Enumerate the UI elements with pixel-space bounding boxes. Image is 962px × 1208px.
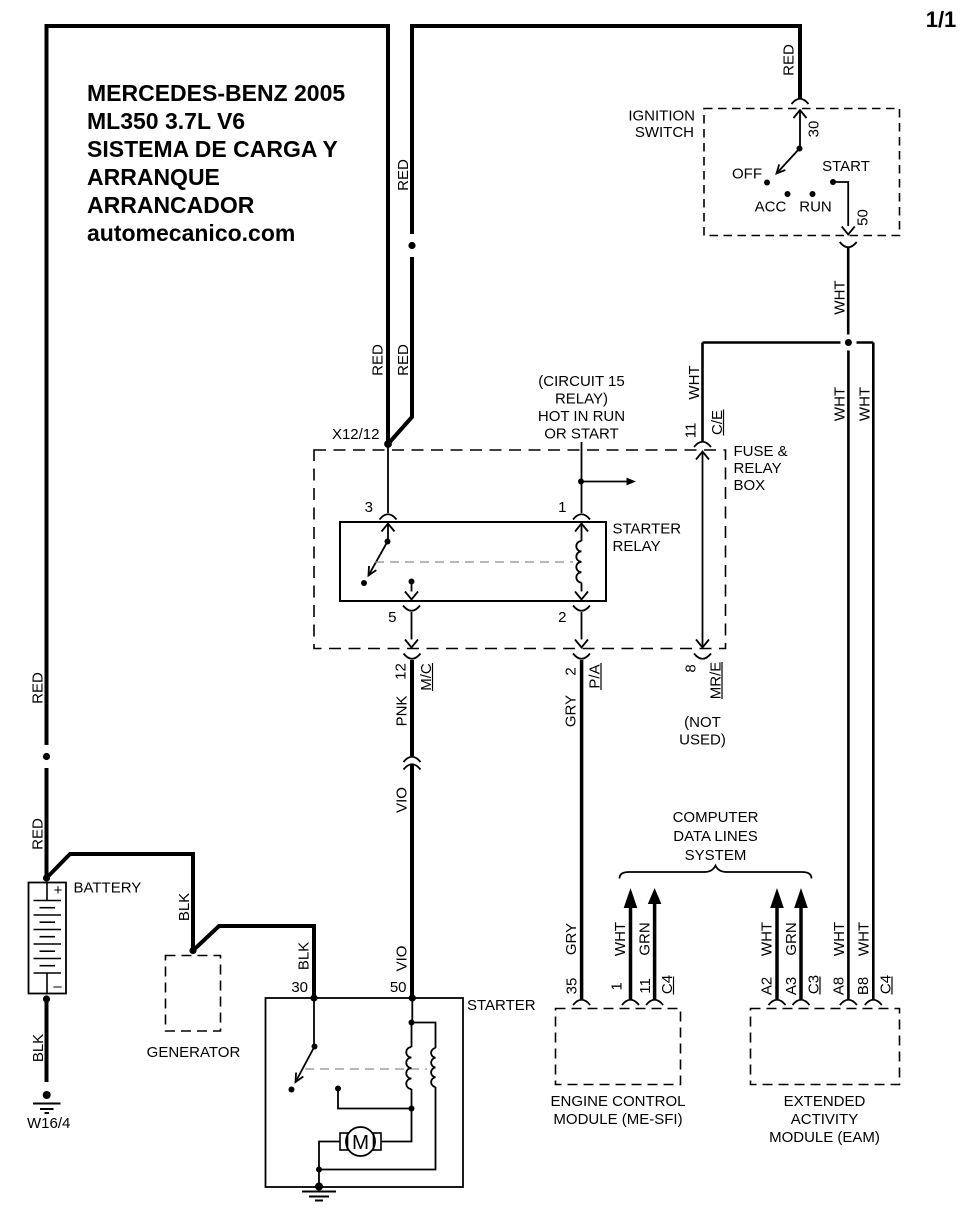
battery B1 outline: [29, 883, 67, 994]
svg-text:WHT: WHT: [831, 280, 848, 314]
starter linkage dashed line: [305, 1068, 427, 1070]
svg-text:W16/4: W16/4: [27, 1115, 70, 1132]
svg-text:30: 30: [805, 121, 822, 138]
starter ground symbol: [302, 1192, 336, 1201]
svg-text:WHT: WHT: [686, 365, 703, 399]
starter lever end contact dot: [289, 1087, 295, 1093]
svg-text:(NOT: (NOT: [684, 714, 721, 731]
svg-text:GENERATOR: GENERATOR: [147, 1044, 241, 1061]
battery bottom stub: [46, 973, 48, 994]
svg-text:MODULE (ME-SFI): MODULE (ME-SFI): [553, 1111, 682, 1128]
wire WHT ignition 50 down to junction: [847, 248, 850, 335]
wire X12/12 to relay terminal 3: [387, 444, 389, 513]
svg-text:BLK: BLK: [30, 1034, 47, 1062]
svg-text:RED: RED: [369, 344, 386, 376]
svg-text:RED: RED: [395, 159, 412, 191]
EAM dashed box: [751, 1009, 900, 1085]
feed tap branch arrowhead: [627, 478, 637, 486]
ECM terminal 1 socket arc: [622, 1000, 639, 1005]
motor left brush: [340, 1133, 348, 1150]
svg-text:FUSE &: FUSE &: [734, 443, 788, 460]
svg-text:2: 2: [558, 609, 566, 626]
wire WHT junction to C/E drop (horizontal): [703, 341, 841, 344]
terminal 2 socket arc below fuse box: [573, 654, 590, 659]
wire contact to motor node: [338, 1089, 412, 1109]
wire GRY fuse terminal 2 to ECM 35: [580, 660, 584, 999]
svg-text:COMPUTER: COMPUTER: [673, 809, 759, 826]
stem terminal 1 to coil: [581, 524, 583, 542]
wire PNK from fuse terminal 12: [410, 660, 414, 756]
starter switch lever: [296, 1047, 315, 1083]
svg-text:EXTENDED: EXTENDED: [784, 1093, 866, 1110]
svg-text:STARTER: STARTER: [613, 521, 682, 538]
svg-text:OFF: OFF: [732, 166, 762, 183]
svg-text:M: M: [352, 1131, 369, 1154]
svg-text:ARRANCADOR: ARRANCADOR: [87, 192, 255, 218]
terminal 8 socket arc: [694, 654, 711, 659]
EAM terminal A3 socket arc: [793, 1000, 810, 1005]
starter terminal 50 dot: [409, 994, 416, 1001]
battery top stub: [46, 883, 48, 901]
svg-text:50: 50: [390, 979, 407, 996]
generator terminal dot: [189, 947, 196, 954]
svg-text:USED): USED): [679, 732, 726, 749]
svg-text:MODULE (EAM): MODULE (EAM): [769, 1129, 880, 1146]
lever arrowhead: [777, 164, 786, 173]
wire stem terminal 30 to pivot: [799, 110, 801, 149]
svg-text:DATA LINES: DATA LINES: [673, 828, 757, 845]
data arrow GRN to ECM pin 11: [648, 888, 662, 904]
wire motor left brush to ground: [319, 1142, 340, 1187]
wire WHT drop to fuse box terminal 11 C/E: [701, 343, 704, 442]
motor node junction dot: [409, 1106, 415, 1112]
svg-text:START: START: [822, 158, 870, 175]
svg-text:SISTEMA DE CARGA Y: SISTEMA DE CARGA Y: [87, 136, 338, 162]
svg-text:RUN: RUN: [799, 199, 832, 216]
node X12/12 junction dot: [384, 440, 392, 448]
stem terminal 3 to relay contact: [387, 524, 389, 542]
title block: [87, 80, 345, 246]
wire START to terminal 50: [833, 182, 848, 226]
START contact dot: [830, 179, 836, 185]
svg-text:WHT: WHT: [855, 922, 872, 956]
svg-text:8: 8: [682, 664, 699, 672]
wire VIO to starter 50: [410, 764, 414, 999]
terminal 3 pin arrow: [382, 524, 395, 532]
svg-text:11: 11: [682, 423, 699, 439]
terminal 3 socket arc: [380, 514, 397, 519]
motor right brush: [374, 1133, 382, 1150]
svg-text:12: 12: [392, 663, 409, 680]
ignition switch connector socket arc (terminal 30 entry): [792, 99, 809, 104]
starter solid box: [266, 998, 464, 1187]
svg-text:VIO: VIO: [393, 787, 410, 813]
svg-text:HOT IN RUN: HOT IN RUN: [538, 408, 625, 425]
svg-text:+: +: [54, 882, 63, 899]
svg-text:RED: RED: [395, 344, 412, 376]
svg-text:GRY: GRY: [562, 695, 579, 727]
svg-text:5: 5: [388, 609, 396, 626]
solenoid tap dot: [409, 1020, 415, 1026]
EAM terminal A2 socket arc: [769, 1000, 786, 1005]
ECM terminal 35 socket arc: [573, 1000, 590, 1005]
svg-text:ML350 3.7L V6: ML350 3.7L V6: [87, 108, 245, 134]
wire BLK battery negative to ground: [45, 999, 49, 1082]
relay armature contact dot terminal 5: [409, 579, 415, 585]
starter lever arrowhead: [296, 1073, 304, 1083]
terminal 1 socket arc: [573, 514, 590, 519]
svg-text:WHT: WHT: [758, 922, 775, 956]
svg-text:IGNITION: IGNITION: [628, 108, 695, 125]
EAM terminal B8 socket arc: [865, 1000, 882, 1005]
starter ground dot: [315, 1183, 323, 1191]
splice dot on left RED wire: [43, 753, 50, 760]
svg-text:WHT: WHT: [831, 922, 848, 956]
wire X12/12-to-ignition RED (upper run): [412, 26, 800, 234]
svg-text:VIO: VIO: [393, 946, 410, 972]
terminal 50 pin arrow: [842, 227, 855, 235]
EAM terminal A8 socket arc: [840, 1000, 857, 1005]
OFF contact dot: [764, 180, 770, 186]
generator dashed box: [166, 956, 221, 1032]
svg-text:PNK: PNK: [393, 696, 410, 727]
ignition switch dashed box: [704, 109, 900, 236]
svg-text:ACTIVITY: ACTIVITY: [791, 1111, 859, 1128]
svg-text:A8: A8: [830, 977, 847, 995]
svg-text:RED: RED: [29, 672, 46, 704]
terminal 2 socket arc: [573, 606, 590, 611]
relay switch lever: [369, 542, 388, 576]
wire pull-in coil to motor node: [411, 1089, 413, 1109]
svg-text:1: 1: [608, 982, 625, 990]
wire WHT junction down to EAM A8: [847, 351, 850, 1000]
data arrow GRN to EAM A3: [794, 888, 808, 908]
ignition switch lever: [777, 149, 800, 174]
svg-text:GRN: GRN: [636, 922, 653, 955]
junction dot WHT splice: [845, 339, 852, 346]
wire circuit15 feed down to relay coil: [581, 442, 583, 513]
C/E entry socket arc at fuse top: [694, 442, 711, 447]
pin arrow at fuse border (12): [405, 640, 418, 648]
svg-text:RELAY: RELAY: [613, 538, 661, 555]
terminal 1 pin arrow: [575, 524, 588, 532]
terminal 50 socket arc: [840, 242, 857, 247]
svg-text:ENGINE CONTROL: ENGINE CONTROL: [550, 1093, 685, 1110]
battery cell plates: [34, 901, 62, 974]
ECM terminal 11 socket arc: [646, 1000, 663, 1005]
svg-text:SYSTEM: SYSTEM: [685, 847, 747, 864]
data arrow WHT to EAM A2: [770, 888, 784, 908]
svg-text:BLK: BLK: [295, 942, 312, 970]
data lines brace: [620, 866, 812, 879]
pull-in coil: [406, 1047, 411, 1089]
svg-text:BOX: BOX: [734, 477, 766, 494]
starter terminal 30 dot: [310, 994, 317, 1001]
svg-text:A2: A2: [758, 977, 775, 995]
svg-text:STARTER: STARTER: [467, 997, 536, 1014]
ground W16/4: [33, 1091, 61, 1113]
pass-through wire 11 to 8: [702, 452, 704, 648]
terminal 12 socket arc below fuse box: [404, 654, 421, 659]
stem coil to terminal 2: [581, 583, 583, 592]
svg-text:RELAY: RELAY: [734, 460, 782, 477]
svg-text:ARRANQUE: ARRANQUE: [87, 164, 220, 190]
inline connector upper arc: [404, 757, 421, 762]
wire terminal 5 to fuse box border: [411, 612, 413, 640]
svg-text:GRN: GRN: [783, 922, 800, 955]
svg-text:MERCEDES-BENZ 2005: MERCEDES-BENZ 2005: [87, 80, 345, 106]
ground bus junction dot: [316, 1167, 322, 1173]
pin arrow at fuse border (2): [575, 640, 588, 648]
ignition pin arrow terminal 30: [794, 110, 807, 118]
stem contact to terminal 5: [411, 582, 413, 592]
starter relay solid box: [340, 522, 606, 601]
splice dot on ignition RED wire: [408, 242, 415, 249]
inline connector lower arc: [404, 764, 421, 769]
hold-in coil: [431, 1048, 435, 1087]
pin arrow terminal 8 at bottom border: [696, 640, 709, 648]
wire battery-to-X12/12 RED (upper run): [47, 26, 389, 745]
svg-text:11: 11: [637, 978, 654, 994]
pin arrow C/E inside fuse box: [696, 452, 709, 460]
data arrow WHT to ECM pin 1: [624, 888, 638, 908]
svg-text:ACC: ACC: [755, 199, 787, 216]
svg-text:35: 35: [563, 978, 580, 995]
starter switch pivot dot: [312, 1044, 318, 1050]
stem 50 to solenoid tap: [411, 998, 413, 1023]
stem 30 to switch pivot: [313, 998, 315, 1047]
terminal 2 pin arrow: [575, 592, 588, 600]
svg-text:GRY: GRY: [563, 923, 580, 955]
svg-text:B8: B8: [855, 977, 872, 995]
svg-text:X12/12: X12/12: [332, 426, 380, 443]
svg-text:1/1: 1/1: [926, 7, 957, 32]
wire battery-to-X12/12 RED (lower segment): [45, 768, 49, 878]
battery negative terminal dot: [43, 995, 50, 1002]
motor M1 circle: [346, 1127, 375, 1156]
feed tap dot: [578, 479, 584, 485]
wire WHT junction to right corner: [857, 341, 874, 344]
battery positive junction dot: [43, 874, 50, 881]
svg-text:WHT: WHT: [856, 387, 873, 421]
relay lever arrowhead: [369, 566, 377, 576]
relay linkage dashed line: [375, 561, 573, 563]
svg-text:(CIRCUIT 15: (CIRCUIT 15: [538, 373, 624, 390]
svg-text:automecanico.com: automecanico.com: [87, 220, 295, 246]
svg-text:–: –: [53, 978, 62, 995]
terminal 5 pin arrow: [405, 592, 418, 600]
terminal 5 socket arc: [403, 606, 420, 611]
wire node to motor right brush: [381, 1109, 412, 1142]
svg-text:WHT: WHT: [831, 387, 848, 421]
stem 50 tap to pull-in coil: [411, 1023, 413, 1048]
svg-text:2: 2: [562, 667, 579, 675]
svg-text:SWITCH: SWITCH: [635, 124, 694, 141]
ignition pivot contact dot: [797, 146, 803, 152]
wire BLK battery to generator: [47, 854, 194, 950]
wire terminal 2 to fuse border: [581, 612, 583, 640]
feed tap branch wire: [581, 481, 627, 483]
wire hold-in coil to ground bus: [319, 1087, 436, 1170]
svg-text:BATTERY: BATTERY: [74, 880, 142, 897]
svg-text:1: 1: [558, 499, 566, 516]
relay lever end contact dot: [361, 580, 367, 586]
relay coil: [576, 541, 581, 583]
svg-text:WHT: WHT: [612, 922, 629, 956]
ACC contact dot: [785, 191, 791, 197]
wire BLK generator to starter 30: [193, 926, 314, 998]
wire WHT right branch down to EAM B8: [872, 343, 875, 1000]
svg-text:BLK: BLK: [176, 893, 193, 921]
svg-text:RED: RED: [29, 818, 46, 850]
starter contact dot (main switch output): [335, 1086, 341, 1092]
relay contact pivot dot: [385, 539, 391, 545]
fuse and relay box dashed border: [314, 450, 726, 649]
svg-text:A3: A3: [783, 977, 800, 995]
branch to hold-in coil: [412, 1023, 436, 1049]
svg-text:RED: RED: [780, 44, 797, 76]
RUN contact dot: [810, 191, 816, 197]
svg-text:OR START: OR START: [544, 426, 618, 443]
svg-text:3: 3: [365, 499, 373, 516]
svg-text:50: 50: [854, 209, 871, 226]
ECM dashed box: [556, 1009, 681, 1085]
wire X12/12-to-ignition RED (lower segment with diagonal): [388, 257, 412, 444]
svg-text:RELAY): RELAY): [555, 391, 608, 408]
svg-text:30: 30: [291, 979, 308, 996]
